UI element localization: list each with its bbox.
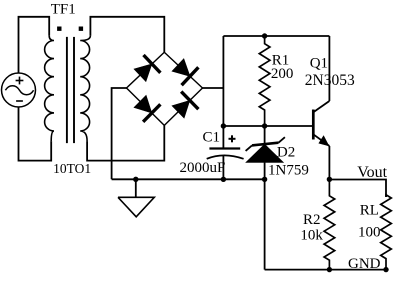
zener diode D2 bbox=[246, 126, 285, 179]
svg-text:R2: R2 bbox=[303, 212, 321, 228]
svg-text:Vout: Vout bbox=[357, 164, 387, 181]
wire: secondary bottom to bridge bbox=[87, 125, 164, 160]
phase dot primary bbox=[57, 27, 61, 31]
svg-text:Q1: Q1 bbox=[310, 56, 328, 72]
wire: AC bottom rail bbox=[19, 107, 52, 161]
resistor R2 bbox=[324, 179, 335, 269]
bridge diode bottom-left bbox=[134, 95, 152, 113]
wire: Vout bbox=[329, 180, 386, 198]
svg-text:2N3053: 2N3053 bbox=[305, 72, 355, 89]
bridge rectifier diamond bbox=[127, 52, 203, 125]
ground rail bbox=[112, 178, 265, 180]
transformer TF1 primary winding bbox=[45, 36, 54, 142]
capacitor C1 bbox=[207, 126, 244, 179]
transformer core bbox=[66, 37, 68, 143]
svg-text:TF1: TF1 bbox=[51, 1, 76, 17]
svg-text:D2: D2 bbox=[277, 145, 295, 161]
phase dot secondary bbox=[79, 27, 83, 31]
wire: AC top rail bbox=[19, 17, 50, 73]
wire: bridge plus riser bbox=[203, 87, 224, 89]
ground symbol bbox=[118, 179, 154, 217]
bridge diode top-right bbox=[172, 59, 190, 77]
wire: DC top rail bbox=[223, 35, 329, 37]
transformer TF1 secondary winding bbox=[80, 36, 90, 142]
wire: bridge minus to ground rail bbox=[112, 88, 127, 179]
svg-text:200: 200 bbox=[271, 66, 294, 82]
junction dots bbox=[262, 33, 267, 38]
bridge diode bottom-right bbox=[172, 100, 190, 118]
svg-text:100: 100 bbox=[358, 224, 381, 240]
svg-text:2000uF: 2000uF bbox=[180, 160, 226, 176]
svg-text:RL: RL bbox=[360, 202, 379, 218]
svg-text:GND: GND bbox=[348, 256, 381, 272]
resistor R1 bbox=[259, 36, 270, 126]
wire: base wire bbox=[223, 125, 312, 127]
resistor RL bbox=[381, 195, 392, 270]
svg-text:C1: C1 bbox=[203, 130, 221, 146]
AC source V1 bbox=[2, 73, 36, 107]
svg-text:10TO1: 10TO1 bbox=[53, 161, 91, 176]
wire: secondary top to bridge bbox=[90, 17, 164, 52]
bottom rail bbox=[265, 269, 386, 271]
bridge diode top-left bbox=[134, 64, 152, 82]
transistor Q1 bbox=[313, 36, 329, 179]
svg-text:1N759: 1N759 bbox=[268, 163, 309, 179]
wire: D2 anode to bottom rail bbox=[264, 179, 266, 269]
svg-text:10k: 10k bbox=[300, 227, 323, 243]
